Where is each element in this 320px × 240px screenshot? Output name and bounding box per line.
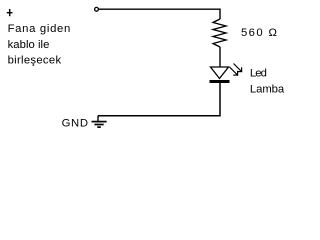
label: Fana giden kablo ile birlesecek xyxy=(8,23,71,67)
LED D1 triangle (anode) xyxy=(211,67,229,79)
svg-text:Fana giden: Fana giden xyxy=(8,23,71,35)
svg-text:Lamba: Lamba xyxy=(250,84,285,96)
svg-text:Led: Led xyxy=(250,68,267,80)
resistor R1 (zigzag) xyxy=(213,19,226,47)
LED light arrow 2 xyxy=(230,67,239,76)
svg-text:kablo ile: kablo ile xyxy=(8,39,50,51)
LED light arrow 1 xyxy=(234,64,243,73)
ground symbol xyxy=(92,116,107,127)
terminal (open circle) xyxy=(95,7,99,11)
svg-text:GND: GND xyxy=(62,118,88,130)
node + (positive supply label) xyxy=(7,9,13,16)
svg-text:560 Ω: 560 Ω xyxy=(241,27,277,39)
wire: LED to bottom corner and left to ground xyxy=(98,83,220,116)
wire: resistor to LED xyxy=(219,47,221,67)
wire: terminal to top-right corner xyxy=(99,9,220,19)
svg-text:birleşecek: birleşecek xyxy=(8,55,62,67)
LED D1 cathode bar xyxy=(210,80,230,83)
label: Led Lamba xyxy=(250,68,285,96)
